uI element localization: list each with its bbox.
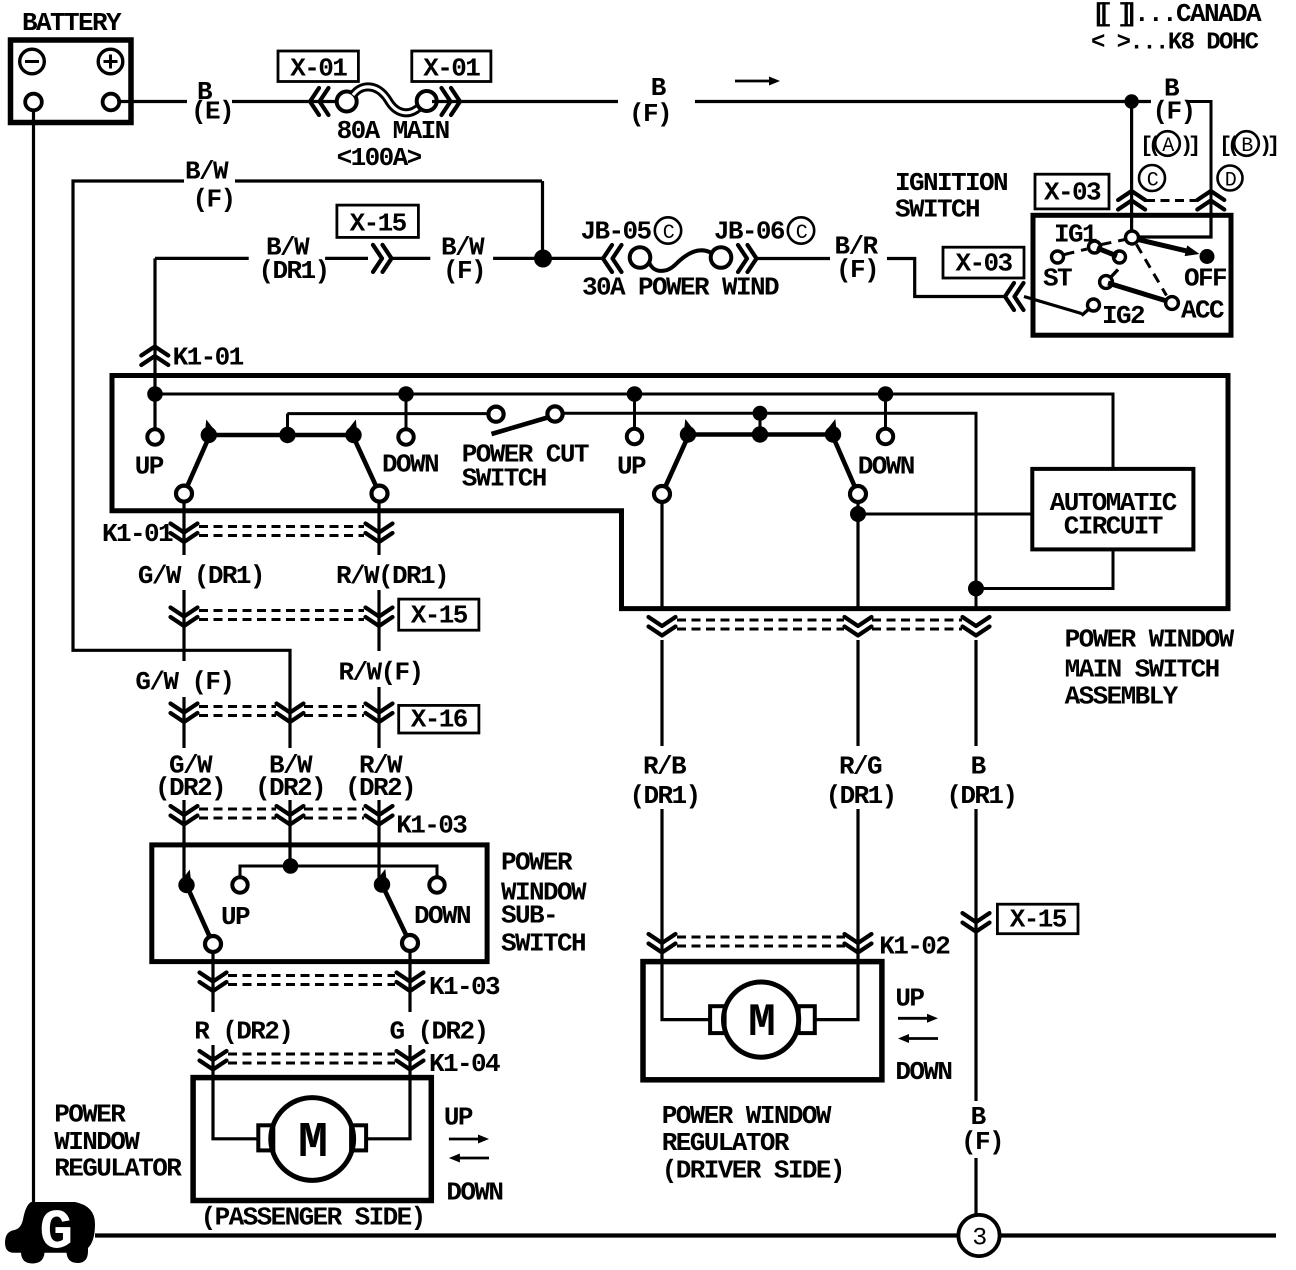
wire power cut switch left	[287, 412, 488, 415]
connector chevrons K1-03 row mid	[277, 806, 304, 815]
sub-switch terminal DOWN	[429, 877, 444, 892]
svg-text:UP: UP	[617, 452, 646, 482]
svg-text:ACC: ACC	[1181, 296, 1224, 326]
wire automatic circuit bottom	[976, 549, 1113, 588]
terminal DOWN-right	[878, 429, 893, 444]
connector dashed K1-03 lower	[228, 974, 395, 977]
connector dashed line C-D	[1146, 199, 1196, 202]
svg-text:80A MAIN: 80A MAIN	[337, 116, 449, 146]
wire G/W(DR1) seg2	[182, 590, 185, 661]
connector chevrons out of 30A fuse	[738, 245, 747, 272]
svg-text:(DR2): (DR2)	[255, 773, 325, 803]
connector chevrons X-03	[1005, 283, 1014, 310]
svg-text:30A POWER WIND: 30A POWER WIND	[582, 273, 779, 303]
sub-switch pivot UP	[178, 877, 194, 893]
connector dashed X-16 row	[199, 705, 276, 708]
svg-text:B/W: B/W	[185, 157, 229, 187]
wire C branch	[1130, 102, 1133, 233]
connector chevrons K1-02 left	[649, 934, 676, 943]
svg-text:A: A	[1162, 135, 1174, 158]
right switch blade DOWN	[833, 436, 859, 495]
svg-text:(F): (F)	[836, 255, 878, 285]
wire B(E) battery to fuse	[119, 100, 188, 103]
svg-text:(DR2): (DR2)	[345, 773, 415, 803]
svg-text:DOWN: DOWN	[414, 901, 470, 931]
connector X-01 box left	[278, 51, 358, 82]
connector chevrons below box R/B	[649, 617, 676, 626]
svg-text:SWITCH: SWITCH	[895, 195, 979, 225]
fuse 30A terminal right	[711, 247, 732, 268]
ground bus wire right	[1000, 1233, 1277, 1237]
svg-text:(F): (F)	[629, 99, 671, 129]
junction bus UP-left	[147, 386, 163, 402]
connector X-03 label box upper	[1035, 174, 1109, 209]
svg-text:C: C	[663, 222, 675, 245]
connector chevrons K1-04 right	[397, 1051, 424, 1060]
connector dashed K1-04	[228, 1053, 395, 1056]
svg-text:IGNITION: IGNITION	[895, 168, 1007, 198]
wire R(DR2) seg2	[213, 1045, 258, 1139]
wire G/W(DR2)	[182, 800, 185, 880]
ignition terminal center	[1100, 276, 1113, 289]
connector chevrons below box B	[963, 617, 990, 626]
svg-text:X-03: X-03	[1044, 178, 1101, 208]
svg-text:M: M	[298, 1115, 326, 1172]
right switch common bar	[688, 432, 833, 437]
connector dashed below box	[677, 619, 844, 622]
svg-text:K1-03: K1-03	[429, 972, 500, 1002]
svg-text:JB-06: JB-06	[714, 217, 785, 247]
svg-text:...CANADA: ...CANADA	[1134, 0, 1262, 29]
svg-text:B: B	[1241, 135, 1253, 158]
ignition blade IG1	[1097, 248, 1117, 256]
connector dashed K1-02	[677, 936, 845, 939]
wire R(DR2) seg1	[211, 952, 214, 1012]
connector dashed K1-01 row	[199, 525, 364, 528]
svg-text:X-16: X-16	[411, 705, 468, 735]
battery plus terminal symbol	[98, 49, 123, 74]
connector chevrons X-15 on B	[963, 913, 990, 922]
wire B/W(F) row segment 2	[235, 179, 542, 182]
flow arrow right	[735, 80, 773, 83]
svg-text:(DR1): (DR1)	[630, 781, 700, 811]
svg-text:G (DR2): G (DR2)	[390, 1017, 488, 1047]
svg-text:K1-01: K1-01	[102, 519, 173, 549]
ignition arrow to OFF	[1138, 240, 1186, 251]
motor tab right driver	[799, 1006, 815, 1033]
svg-text:(F): (F)	[961, 1127, 1003, 1157]
connector X-15 label box mid	[399, 599, 479, 630]
connector chevrons K1-01 row left	[171, 524, 198, 533]
fuse 80A MAIN element	[353, 87, 420, 113]
left switch contact UP	[176, 486, 192, 502]
svg-text:(DRIVER SIDE): (DRIVER SIDE)	[662, 1156, 844, 1186]
wire B(F) to ignition junction	[695, 100, 1151, 103]
connector dashed X-15 row	[199, 609, 364, 612]
wire R/W(DR1) seg3	[377, 687, 380, 748]
motor tab left driver	[710, 1006, 725, 1033]
wire B to ground node	[974, 1158, 977, 1215]
wire B/R segment	[756, 257, 830, 260]
battery positive post	[103, 94, 120, 111]
wire B(F) corner to D branch	[1188, 102, 1211, 216]
connector chevrons K1-01 top	[141, 347, 168, 356]
connector chevrons K1-01 row right	[366, 524, 393, 533]
svg-text:K1-04: K1-04	[429, 1049, 500, 1079]
sub-switch contact UP	[205, 936, 221, 952]
svg-text:OFF: OFF	[1184, 264, 1227, 294]
svg-text:G/W (DR1): G/W (DR1)	[138, 561, 264, 591]
svg-text:B: B	[971, 752, 987, 782]
terminal UP-left	[147, 429, 162, 444]
motor M passenger	[271, 1098, 354, 1181]
sub-switch bus	[240, 866, 437, 877]
junction below DOWN-right	[850, 506, 866, 522]
svg-text:R (DR2): R (DR2)	[194, 1017, 292, 1047]
battery	[11, 40, 132, 123]
connector X-15 label box top	[337, 205, 419, 237]
wire R/B seg1	[660, 640, 663, 746]
stub DOWN-left	[405, 394, 408, 430]
svg-text:UP: UP	[895, 984, 924, 1014]
power cut switch terminal left	[488, 407, 503, 422]
wire driver motor right	[815, 962, 858, 1020]
ignition switch box	[1033, 215, 1231, 335]
svg-text:]: ]	[1188, 134, 1200, 159]
connector chevrons X-15 inline	[373, 245, 382, 272]
connector chevrons into 80A fuse	[310, 88, 319, 115]
connector chevrons K1-04 left	[200, 1051, 227, 1060]
svg-text:X-15: X-15	[350, 209, 407, 239]
svg-text:DOWN: DOWN	[858, 452, 914, 482]
junction power-cut right	[753, 406, 768, 421]
svg-text:DOWN: DOWN	[895, 1057, 951, 1087]
svg-text:X-03: X-03	[955, 249, 1012, 279]
battery negative post	[25, 94, 42, 111]
left switch blade DOWN	[353, 436, 380, 494]
junction bus UP-right	[627, 386, 643, 402]
connector X-16 label box	[399, 705, 479, 733]
sub-switch contact DOWN	[402, 935, 418, 951]
wire R/W(DR1) seg1	[377, 501, 380, 555]
sub-switch pivot DOWN	[374, 876, 390, 892]
wire G(DR2) seg1	[408, 951, 411, 1012]
connector chevrons X-15 row right	[366, 608, 393, 617]
wire B/W(F) drop	[541, 181, 544, 259]
svg-text:(DR1): (DR1)	[259, 256, 329, 286]
sub-switch junction B/W	[283, 858, 299, 874]
sub-switch blade DOWN	[382, 885, 410, 943]
motor tab left passenger	[258, 1125, 273, 1150]
terminal UP-right	[627, 429, 642, 444]
ignition dashed top-ACC	[1137, 245, 1167, 296]
ignition dashed ST-IG1	[1065, 249, 1088, 255]
power window regulator driver box	[643, 962, 882, 1080]
wire R/B seg2	[660, 809, 663, 962]
connector chevrons K1-02 right	[845, 934, 872, 943]
svg-text:POWER: POWER	[501, 848, 573, 878]
svg-text:< >...K8 DOHC: < >...K8 DOHC	[1091, 30, 1259, 57]
circled C JB-05	[655, 217, 681, 243]
left switch blade UP	[184, 436, 210, 494]
svg-text:R/W(DR1): R/W(DR1)	[336, 561, 448, 591]
power window regulator passenger box	[193, 1078, 431, 1201]
wire to automatic circuit input	[858, 513, 1032, 516]
wire B/W segment 3	[493, 257, 602, 260]
wire B seg2	[974, 809, 977, 1101]
svg-text:[: [	[1098, 0, 1112, 29]
svg-text:UP: UP	[221, 902, 250, 932]
junction node B(F)	[1124, 94, 1138, 108]
terminal DOWN-left	[398, 429, 413, 444]
circled C JB-06	[788, 217, 814, 243]
svg-text:UP: UP	[444, 1103, 473, 1133]
svg-text:REGULATOR: REGULATOR	[662, 1128, 790, 1158]
left switch pivot 1	[201, 427, 217, 443]
connector X-01 box right	[412, 51, 491, 82]
ignition terminal ST	[1052, 251, 1064, 263]
wire B/W(DR1) drop to main switch	[153, 258, 156, 429]
svg-text:R/B: R/B	[643, 752, 687, 782]
motor tab right passenger	[351, 1125, 366, 1150]
svg-text:3: 3	[972, 1224, 986, 1253]
svg-text:POWER WINDOW: POWER WINDOW	[662, 1101, 832, 1131]
ground symbol car body	[5, 1202, 95, 1264]
svg-text:X-01: X-01	[423, 54, 480, 84]
svg-text:R/W(F): R/W(F)	[339, 658, 423, 688]
svg-text:DOWN: DOWN	[446, 1178, 502, 1208]
ignition contact mid	[1114, 251, 1126, 263]
svg-text:G: G	[39, 1201, 71, 1265]
stub power-cut left	[286, 414, 289, 435]
stub DOWN-right	[884, 394, 887, 429]
arrow up driver	[898, 1017, 930, 1020]
power cut switch blade	[492, 417, 552, 435]
wire R/G inside box	[856, 500, 859, 609]
sub-switch blade UP	[187, 885, 214, 944]
junction node B/W	[534, 250, 552, 268]
svg-text:(PASSENGER SIDE): (PASSENGER SIDE)	[201, 1203, 425, 1233]
svg-text:MAIN SWITCH: MAIN SWITCH	[1065, 655, 1219, 685]
ignition terminal common top	[1126, 231, 1139, 244]
wire R/B inside box	[660, 500, 663, 609]
wire R/W(DR1) seg2	[377, 590, 380, 651]
wire G(DR2) seg2	[366, 1045, 410, 1139]
wire B/W(DR2)	[288, 800, 291, 866]
junction bus DOWN-right	[878, 386, 894, 402]
svg-text:(DR2): (DR2)	[155, 773, 225, 803]
wire into IG2	[1024, 297, 1082, 314]
svg-text:(F): (F)	[193, 185, 235, 215]
right switch pivot 2	[825, 426, 841, 442]
connector chevrons D	[1197, 191, 1224, 200]
svg-text:(F): (F)	[443, 256, 485, 286]
svg-text:WINDOW: WINDOW	[54, 1127, 140, 1157]
wire B/R to ignition switch	[887, 259, 1006, 297]
svg-text:R/G: R/G	[839, 752, 882, 782]
wire R/G seg1	[856, 640, 859, 746]
wire G/W(DR1) seg1	[182, 501, 185, 555]
svg-text:BATTERY: BATTERY	[22, 8, 122, 38]
wire B(F) fuse to junction	[432, 100, 618, 103]
svg-text:G/W (F): G/W (F)	[135, 667, 233, 697]
connector chevrons X-16 row mid	[277, 704, 304, 713]
circled C node	[1139, 165, 1165, 191]
wire B/W(F) row	[73, 181, 290, 748]
connector chevrons out of 80A fuse	[442, 88, 451, 115]
motor M driver	[724, 982, 799, 1057]
wire B/W segment 2	[391, 257, 430, 260]
ignition blade ACC	[1108, 283, 1170, 302]
svg-text:X-01: X-01	[290, 54, 347, 84]
right switch pivot 1	[680, 426, 696, 442]
svg-text:K1-01: K1-01	[173, 343, 244, 373]
junction automatic-B	[968, 581, 984, 597]
svg-text:UP: UP	[135, 452, 164, 482]
power window main switch assembly box	[112, 376, 1228, 609]
stub UP-right	[633, 394, 636, 429]
svg-text:ASSEMBLY: ASSEMBLY	[1065, 682, 1179, 712]
svg-text:(DR1): (DR1)	[826, 781, 896, 811]
svg-text:X-15: X-15	[411, 601, 468, 631]
svg-text:SWITCH: SWITCH	[501, 929, 585, 959]
automatic circuit box	[1032, 469, 1193, 550]
connector chevrons X-16 row right	[366, 704, 393, 713]
circled D node	[1218, 166, 1243, 191]
svg-text:(E): (E)	[191, 97, 233, 127]
svg-text:K1-03: K1-03	[396, 811, 467, 841]
junction bus DOWN-left	[398, 386, 414, 402]
svg-text:(DR1): (DR1)	[946, 781, 1016, 811]
svg-text:IG2: IG2	[1102, 301, 1145, 331]
ignition dashed IG1-top	[1102, 240, 1126, 245]
wire B/W mid segment	[325, 257, 368, 260]
left switch contact DOWN	[372, 486, 388, 502]
connector chevrons C	[1118, 191, 1145, 200]
connector X-15 label box right	[997, 904, 1078, 934]
ignition terminal IG1	[1089, 241, 1101, 253]
ignition OFF contact	[1200, 249, 1215, 264]
power cut switch terminal right	[547, 406, 562, 421]
ignition terminal IG2	[1082, 309, 1090, 316]
svg-text:ST: ST	[1043, 264, 1072, 294]
wire segment to 80A fuse	[232, 100, 341, 103]
svg-text:D: D	[1225, 170, 1236, 193]
arrow down driver	[906, 1037, 938, 1040]
svg-text:JB-05: JB-05	[581, 217, 652, 247]
svg-text:]: ]	[1267, 134, 1279, 159]
left switch pivot mid	[279, 427, 295, 443]
connector chevrons into 30A fuse	[603, 245, 612, 272]
bus wire inside main switch	[155, 394, 1113, 469]
wire R/G seg2	[856, 809, 859, 962]
ground node 3	[958, 1215, 999, 1256]
svg-text:POWER WINDOW: POWER WINDOW	[1065, 625, 1235, 655]
connector X-03 label box lower	[943, 247, 1024, 278]
connector chevrons K1-03 lower left	[200, 973, 227, 982]
connector chevrons K1-03 row left	[171, 806, 198, 815]
stub right-mid	[759, 413, 762, 434]
fuse 80A MAIN terminal right	[417, 91, 437, 111]
left switch common bar	[209, 433, 354, 438]
wire B/W(DR1) left segment	[155, 257, 249, 260]
connector dashed K1-03 row	[199, 808, 276, 811]
power window sub-switch box	[152, 845, 487, 962]
connector chevrons X-15 row left	[171, 608, 198, 617]
ignition terminal ACC	[1166, 297, 1179, 310]
connector chevrons K1-03 row right	[366, 806, 393, 815]
fuse 80A MAIN terminal left	[337, 92, 357, 112]
fuse 30A element	[649, 250, 712, 271]
connector chevrons below box R/G	[845, 617, 872, 626]
ground bus wire left	[95, 1233, 959, 1237]
svg-text:C: C	[796, 222, 808, 245]
svg-text:K1-02: K1-02	[879, 932, 950, 962]
svg-text:SUB-: SUB-	[501, 901, 557, 931]
svg-text:CIRCUIT: CIRCUIT	[1064, 512, 1163, 542]
right switch blade UP	[662, 436, 689, 495]
left switch pivot 2	[345, 427, 361, 443]
connector chevrons K1-03 lower right	[397, 973, 424, 982]
wire R/W(DR2)	[377, 800, 380, 880]
svg-text:POWER: POWER	[54, 1100, 126, 1130]
right switch contact DOWN	[850, 486, 866, 502]
svg-text:REGULATOR: REGULATOR	[54, 1154, 182, 1184]
wire battery negative to ground	[32, 110, 35, 1204]
stub UP-left	[154, 394, 157, 430]
svg-text:M: M	[748, 997, 774, 1049]
wire driver motor left	[662, 962, 710, 1020]
arrow up passenger	[449, 1138, 481, 1141]
wire B seg1	[974, 640, 977, 746]
wire power cut to B	[563, 413, 977, 608]
battery minus terminal symbol	[20, 49, 45, 74]
arrow down passenger	[457, 1157, 489, 1160]
fuse 30A terminal left	[630, 247, 651, 268]
svg-text:SWITCH: SWITCH	[462, 464, 546, 494]
svg-text:C: C	[1147, 170, 1159, 193]
wire G/W(DR1) seg3	[182, 697, 185, 748]
svg-text:DOWN: DOWN	[382, 450, 438, 480]
svg-text:X-15: X-15	[1010, 905, 1067, 935]
sub-switch terminal UP	[232, 877, 247, 892]
connector chevrons X-16 row left	[171, 704, 198, 713]
svg-text:<100A>: <100A>	[337, 143, 422, 173]
right switch pivot mid	[752, 426, 768, 442]
wire D branch inside box	[1139, 215, 1211, 237]
right switch contact UP	[654, 486, 670, 502]
